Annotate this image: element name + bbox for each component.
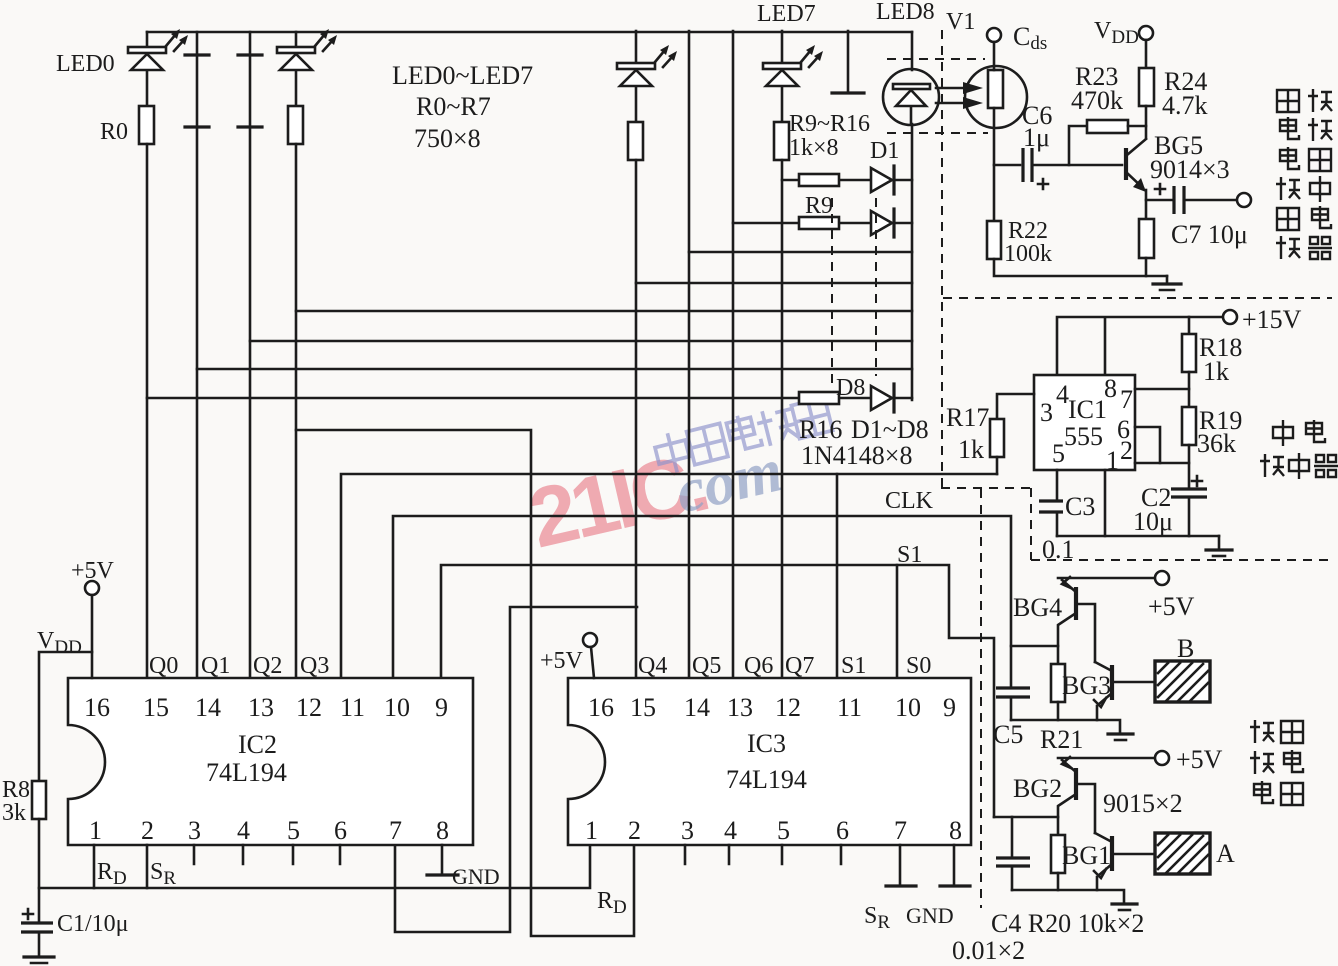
wire +5V B rail [1058,577,1155,580]
IC3 top pin numbers [588,693,956,722]
wire IC3 pin11 drop [836,474,839,678]
label BG2 [1013,774,1062,803]
resistor R9 [799,217,839,229]
IC2 top pin numbers [84,693,448,722]
ground (touch1) [1108,734,1133,740]
LED LED1 [277,32,315,106]
svg-text:14: 14 [684,693,710,722]
resistor R6 [628,122,643,160]
chinese label impedance column [1276,89,1332,259]
capacitor C1 [21,909,53,956]
svg-text:6: 6 [836,816,849,845]
continuation dash column 2 [875,198,877,376]
resistor R18 [1182,317,1196,407]
label Q1 [201,653,230,679]
svg-text:+5V: +5V [1176,745,1223,774]
label R8 3k [2,777,30,826]
wire Q3 to IC3 pin2 link [296,430,634,936]
label VDD left [37,628,82,658]
wire Q0 column [146,144,149,678]
wire IC3 pin10 drop [896,565,899,678]
label RD IC2 [97,859,127,889]
svg-text:15: 15 [630,693,656,722]
LED LED7 [763,31,801,122]
label Cds [1013,22,1047,54]
label LED0~LED7 [392,61,533,90]
wire BG4 base node [1011,646,1058,664]
svg-text:Q6: Q6 [744,653,773,679]
label C6 [1022,101,1052,130]
LED LED6 [617,31,655,122]
label V1 [946,9,975,35]
label R0 [100,119,128,145]
label GND IC2 [452,864,500,889]
svg-text:+5V: +5V [540,648,584,674]
svg-text:BG4: BG4 [1013,593,1062,622]
wire Q1 column [196,32,199,678]
terminal VDD [1139,26,1153,68]
svg-text:BG2: BG2 [1013,774,1062,803]
LED6 emission arrows [655,45,677,67]
svg-text:C3: C3 [1065,492,1095,521]
svg-text:2: 2 [1120,436,1133,465]
label Q6 [744,653,773,679]
svg-text:S1: S1 [897,542,922,568]
label R16 [799,415,842,444]
label Q4 [638,653,667,679]
svg-text:10: 10 [895,693,921,722]
svg-text:4: 4 [237,816,250,845]
wire Q3 column [295,144,298,678]
label 1kx8 [789,135,839,161]
wire Q5 column [688,31,691,678]
wire IC2 pin2 [146,845,149,888]
svg-text:11: 11 [340,693,365,722]
svg-text:10: 10 [384,693,410,722]
label R19 [1199,406,1242,435]
label BG5 [1154,131,1203,160]
wire row6 [250,340,912,343]
dashed optocoupler outline [887,59,988,133]
label 0.01x2 [952,936,1025,965]
capacitor C4 [996,817,1030,890]
label 555 [1064,422,1103,451]
svg-text:LED8: LED8 [876,0,935,25]
wire CLK line [393,516,1011,688]
svg-text:R9~R16: R9~R16 [789,111,870,137]
label S0 pin [906,653,931,679]
label 10u [1133,507,1173,536]
svg-text:1N4148×8: 1N4148×8 [801,441,912,470]
svg-text:R9: R9 [805,193,833,219]
svg-text:2: 2 [628,816,641,845]
ground (touch2) [1112,904,1137,910]
wire Q6 column [732,31,735,678]
svg-text:4.7k: 4.7k [1162,91,1208,120]
chinese label touch control column [1250,720,1303,805]
capacitor C5 [996,688,1030,720]
label C5 [993,720,1023,749]
continuation dash column 1 [831,198,833,390]
svg-text:BG3: BG3 [1062,671,1111,700]
svg-text:10μ: 10μ [1133,507,1173,536]
label 36k [1197,429,1236,458]
svg-text:GND: GND [906,903,954,928]
wire Cds chain [993,108,996,221]
label IC1 [1068,395,1107,424]
label R9~R16 [789,111,870,137]
capacitor C7 [1146,186,1237,214]
wire row8 [147,397,912,400]
wire S-line to BG2 collector [994,816,1058,819]
resistor R21 [1051,664,1065,720]
wire IC2 pin1 [93,845,96,888]
svg-text:IC2: IC2 [238,730,277,759]
transistor BG4 [1058,577,1095,662]
resistor row1 [799,174,839,186]
svg-text:1: 1 [89,816,102,845]
label A [1216,839,1235,868]
label 470k [1071,86,1123,115]
svg-text:7: 7 [894,816,907,845]
svg-text:2: 2 [141,816,154,845]
label BG3 [1062,671,1111,700]
svg-text:3: 3 [188,816,201,845]
svg-text:S1: S1 [841,653,866,679]
terminal +5V B [1155,571,1169,585]
svg-text:1μ: 1μ [1023,123,1050,152]
touch pad B [1155,661,1210,702]
svg-text:1k: 1k [958,435,984,464]
wire touch2 ground rail [1012,890,1124,903]
resistor R22 [987,221,1001,259]
svg-text:9014×3: 9014×3 [1150,155,1230,184]
label C1/10u [57,911,129,937]
ground (555) [1206,536,1232,556]
watermark 中国电子网 [652,394,833,476]
label R23 [1075,62,1118,91]
dashed divider vertical left [941,30,943,488]
wire row1 [782,179,912,182]
label D1~D8 [851,415,929,444]
resistor R1 [288,106,303,144]
label R24 [1164,67,1207,96]
label C3 [1065,492,1095,521]
svg-text:3: 3 [681,816,694,845]
svg-text:13: 13 [727,693,753,722]
transistor BG3 [1094,662,1155,720]
label +5V IC2 [71,558,115,584]
capacitor C2 [1171,489,1207,536]
svg-text:S0: S0 [906,653,931,679]
label R9 [805,193,833,219]
wire pin6 [1135,427,1160,463]
svg-text:3k: 3k [2,800,26,826]
C7 polarity plus [1155,184,1165,194]
label BG1 [1062,841,1111,870]
dashed divider touch left [980,489,982,908]
transistor BG2 [1058,757,1095,835]
ground (C1) [24,957,54,963]
svg-text:R0: R0 [100,119,128,145]
wire S-line IC2.9 [441,565,994,817]
svg-text:Q5: Q5 [692,653,721,679]
svg-text:IC1: IC1 [1068,395,1107,424]
svg-text:0.01×2: 0.01×2 [952,936,1025,965]
label S1 [897,542,922,568]
svg-text:LED0: LED0 [56,51,115,77]
svg-text:LED7: LED7 [757,1,816,27]
svg-text:D1: D1 [870,138,899,164]
touch pad A [1155,833,1210,874]
svg-text:R21: R21 [1040,725,1083,754]
terminal +15V [1223,310,1237,324]
label BG4 [1013,593,1062,622]
svg-text:BG1: BG1 [1062,841,1111,870]
capacitor C6 [994,148,1122,182]
IC2 bottom pin numbers [89,816,449,845]
C6 polarity plus [1038,179,1048,189]
svg-text:1: 1 [1106,446,1119,475]
svg-text:D8: D8 [836,375,865,401]
Q2 break ticks [238,55,262,127]
label LED7 [757,1,816,27]
svg-text:LED0~LED7: LED0~LED7 [392,61,533,90]
wire IC3 pin8 gnd [940,845,970,886]
wire pin7 [1135,388,1189,391]
svg-text:14: 14 [195,693,221,722]
IC2 pin stubs 3-6 [194,845,340,864]
label 9014x3 [1150,155,1230,184]
svg-text:1k×8: 1k×8 [789,135,839,161]
resistor R0 [139,106,154,144]
wire IC2 pin8 gnd [427,845,458,875]
watermark 21IC.com [521,417,790,566]
svg-text:R0~R7: R0~R7 [416,92,491,121]
label 74L194 IC2 [206,758,287,787]
wire emitter ground rail [994,259,1167,276]
label Q0 [149,653,178,679]
dashed divider horizontal impedance [943,297,1332,299]
svg-text:11: 11 [837,693,862,722]
label +5V A [1176,745,1223,774]
svg-text:C7 10μ: C7 10μ [1171,220,1248,249]
label C4 R20 10kx2 [991,909,1144,938]
label C2 [1141,483,1171,512]
svg-text:5: 5 [777,816,790,845]
svg-text:8: 8 [949,816,962,845]
label Q2 [253,653,282,679]
svg-text:+15V: +15V [1242,305,1302,334]
label Q5 [692,653,721,679]
label 9015x2 [1103,789,1183,818]
dashed divider 555 bottom [1031,559,1330,561]
svg-text:B: B [1177,634,1194,663]
svg-text:16: 16 [84,693,110,722]
label Q3 [300,653,329,679]
wire pin3 to R17 [997,394,1034,419]
node VDD tap [39,652,92,781]
LED LED0 [128,32,166,106]
label VDD [1094,18,1139,48]
terminal +5V A [1155,751,1169,765]
Q1 break ticks [185,55,209,127]
label 74L194 IC3 [726,765,807,794]
label +5V B [1148,592,1195,621]
ground (BG5 stage) [1153,276,1181,290]
wire diode cathode bus [911,124,914,400]
svg-text:R17: R17 [946,403,989,432]
optocoupler light arrows [936,82,983,109]
wire pin1 [1104,470,1107,536]
label IC3 [747,729,786,758]
svg-text:IC3: IC3 [747,729,786,758]
resistor R16 [799,392,839,404]
transistor BG5 [1126,139,1146,219]
resistor R7 [774,122,789,160]
label R21 [1040,725,1083,754]
label 750x8 [414,124,481,153]
label C6 value [1023,123,1050,152]
svg-text:A: A [1216,839,1235,868]
LED0 emission arrows [166,29,188,51]
resistor R23 [1069,120,1146,165]
svg-text:D1~D8: D1~D8 [851,415,929,444]
svg-text:C5: C5 [993,720,1023,749]
svg-text:8: 8 [436,816,449,845]
diode D8 [871,384,894,412]
terminal +5V IC3 [583,633,597,678]
label R18 [1199,333,1242,362]
label RD IC3 [597,888,627,918]
svg-text:1k: 1k [1203,357,1229,386]
svg-text:C1/10μ: C1/10μ [57,911,129,937]
wire top bus [147,31,912,34]
svg-text:Q4: Q4 [638,653,667,679]
svg-text:V1: V1 [946,9,975,35]
svg-text:CLK: CLK [885,488,934,514]
label LED0 [56,51,115,77]
svg-text:5: 5 [287,816,300,845]
pin number labels 555 [1040,374,1133,475]
label 0.1 [1042,535,1075,564]
label +5V IC3 [540,648,584,674]
svg-text:470k: 470k [1071,86,1123,115]
svg-text:3: 3 [1040,398,1053,427]
diode D1 [871,166,894,194]
svg-text:12: 12 [296,693,322,722]
svg-text:GND: GND [452,864,500,889]
wire IC3 pin7 gnd [886,845,916,886]
svg-text:+5V: +5V [71,558,115,584]
label IC2 [238,730,277,759]
wire Q2 column [249,32,252,678]
wire row4 [636,282,912,285]
wire Q4 column [635,160,638,678]
wire row2 [733,222,912,225]
label Q7 [785,653,814,679]
resistor R20 [1051,835,1065,890]
svg-text:6: 6 [334,816,347,845]
svg-text:13: 13 [248,693,274,722]
label 100k [1004,241,1052,267]
resistor R24 [1139,68,1154,138]
label 1k R18 [1203,357,1229,386]
diode row2 [871,209,894,237]
wire touch1 ground rail [1011,720,1120,733]
wire row7 [197,368,912,371]
wire pin2 [1135,462,1189,465]
svg-text:555: 555 [1064,422,1103,451]
wire Q4 feedback to IC2.7 [395,607,637,932]
svg-text:15: 15 [143,693,169,722]
svg-text:36k: 36k [1197,429,1236,458]
svg-text:1: 1 [585,816,598,845]
label 4.7k [1162,91,1208,120]
LED1 emission arrows [315,29,337,51]
terminal +5V IC2 [85,581,99,678]
label LED8 [876,0,935,25]
svg-text:C4 R20 10k×2: C4 R20 10k×2 [991,909,1144,938]
label R0~R7 [416,92,491,121]
label B [1177,634,1194,663]
label +15V [1242,305,1302,334]
dashed divider 555 top-left notch [941,488,1031,560]
wire clock line IC2.11 IC3.11 R17 [341,474,997,678]
label SR IC2 [150,859,176,889]
svg-text:4: 4 [724,816,737,845]
svg-text:9015×2: 9015×2 [1103,789,1183,818]
IC3 bottom pin numbers [585,816,962,845]
svg-text:9: 9 [943,693,956,722]
terminal output [1237,193,1251,207]
svg-text:9: 9 [435,693,448,722]
label R17 [946,403,989,432]
transistor BG1 [1094,833,1155,890]
wire 555 bottom bus [1057,535,1219,538]
label 1k R17 [958,435,984,464]
wire reset rail [39,845,590,888]
svg-text:Q7: Q7 [785,653,814,679]
IC2 box [68,678,473,845]
label D8 [836,375,865,401]
wire row5 [296,310,912,313]
label 1N4148x8 [801,441,912,470]
IC3 box [568,678,971,845]
svg-text:12: 12 [775,693,801,722]
label S1 pin [841,653,866,679]
svg-text:Q0: Q0 [149,653,178,679]
svg-text:74L194: 74L194 [206,758,287,787]
wire +5V A rail [1058,757,1155,760]
chinese label square wave generator [1260,420,1338,479]
wire row3 [689,251,912,254]
svg-text:R16: R16 [799,415,842,444]
resistor BG5 emitter [1139,219,1154,276]
svg-text:100k: 100k [1004,241,1052,267]
svg-text:Q1: Q1 [201,653,230,679]
svg-text:Q2: Q2 [253,653,282,679]
wire Q7 column [781,160,784,678]
LED7 emission arrows [801,45,823,67]
label GND IC3 [906,903,954,928]
svg-text:+5V: +5V [1148,592,1195,621]
svg-text:7: 7 [389,816,402,845]
label D1 [870,138,899,164]
label C7 10u [1171,220,1248,249]
svg-text:7: 7 [1120,385,1133,414]
svg-text:750×8: 750×8 [414,124,481,153]
